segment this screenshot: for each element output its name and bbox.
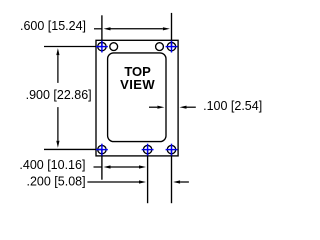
dimension .400 arrowhead right: [139, 165, 146, 168]
svg-text:.600 [15.24]: .600 [15.24]: [20, 19, 86, 33]
dimension .200 extension line (right hole): [171, 150, 173, 204]
datum target hole top-right: [166, 41, 178, 53]
outer package body outline: [96, 40, 178, 156]
dimension .900 arrowhead up: [56, 48, 59, 55]
dimension .600 extension line left: [101, 15, 103, 46]
dimension .900 arrowhead down: [56, 141, 59, 148]
dimension .100 arrowhead right-pointing: [157, 106, 164, 109]
datum target hole top-left: [96, 41, 108, 53]
dimension .100 outer arrow line: [187, 106, 196, 108]
dimension .400/.200 extension line (middle hole): [147, 150, 149, 204]
dimension .600 leader from label: [94, 28, 103, 30]
dimension .900 extension line top: [44, 46, 102, 48]
svg-text:.100 [2.54]: .100 [2.54]: [203, 99, 262, 113]
pin hole left: [110, 43, 118, 51]
dimension .100 arrowhead left-pointing: [180, 106, 187, 109]
inner top-view body outline: [108, 53, 166, 142]
dimension .200 outer arrow line: [180, 181, 189, 183]
datum target hole bottom-middle: [142, 144, 154, 156]
dimension .400 extension line (left hole): [101, 150, 103, 180]
svg-text:.900 [22.86]: .900 [22.86]: [26, 88, 92, 102]
dimension .200 arrowhead right-pointing: [139, 180, 146, 183]
dimension .600 extension line right: [171, 13, 173, 47]
dimension .400 line: [111, 166, 140, 168]
dimension .200 leader line: [87, 181, 139, 183]
dimension .400 leader from label: [94, 166, 103, 168]
dimension .600 arrowhead right: [163, 27, 170, 30]
dimension .900 line upper segment: [57, 55, 59, 83]
dimension .200 arrowhead left-pointing: [173, 180, 180, 183]
svg-text:.400 [10.16]: .400 [10.16]: [19, 158, 85, 172]
datum target hole bottom-right: [166, 144, 178, 156]
pin hole right: [156, 43, 164, 51]
dimension .900 extension line bottom: [44, 148, 102, 150]
dimension .100 inner arrow line: [149, 106, 157, 108]
dimension .400 arrowhead left: [104, 165, 111, 168]
dimension .600 arrowhead left: [104, 27, 111, 30]
datum target hole bottom-left: [96, 144, 108, 156]
svg-text:.200 [5.08]: .200 [5.08]: [27, 175, 86, 189]
svg-text:VIEW: VIEW: [120, 77, 155, 92]
dimension .900 line lower segment: [57, 107, 59, 141]
dimension .600 line: [111, 28, 163, 30]
